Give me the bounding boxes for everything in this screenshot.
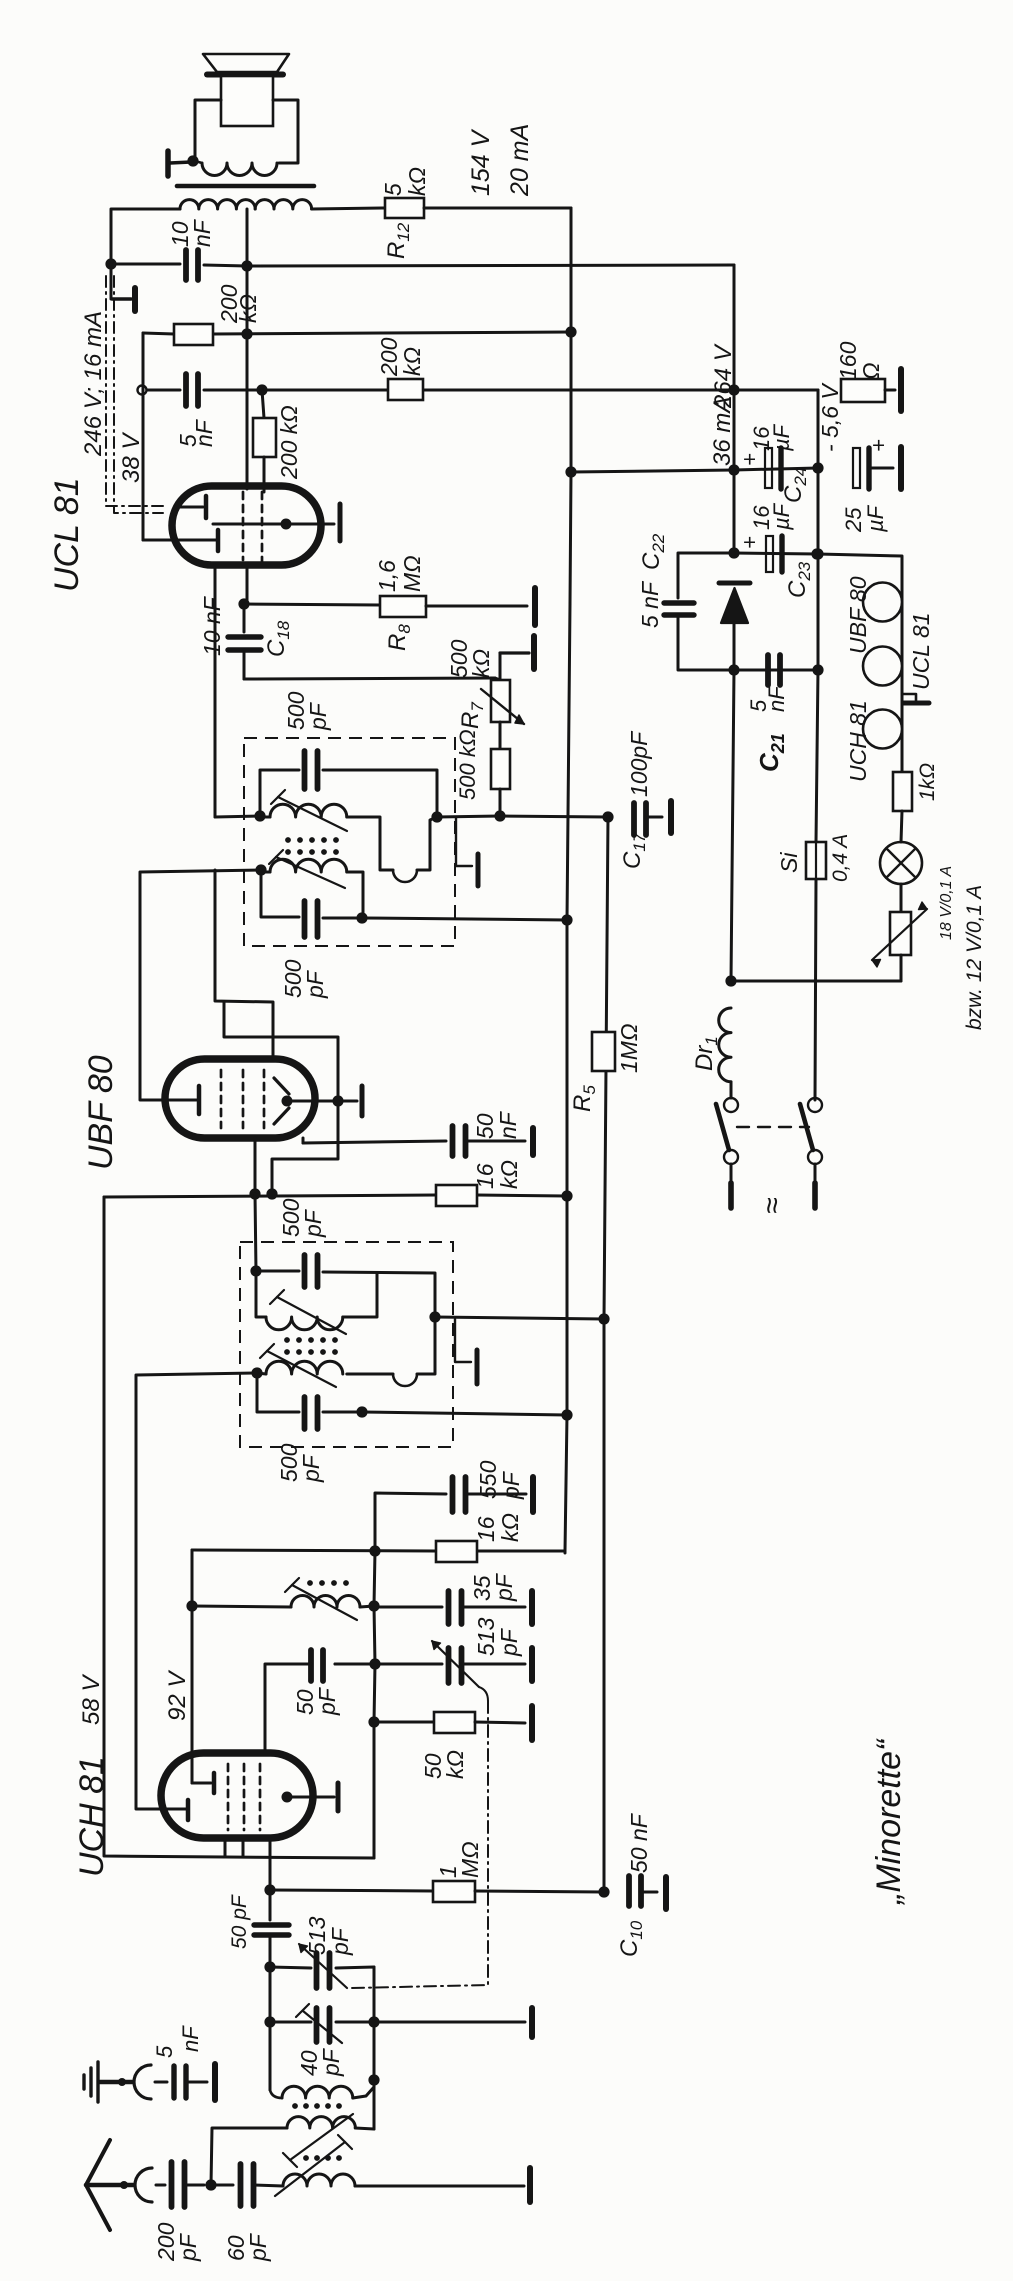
node IF2 P — [254, 810, 265, 821]
node T2 — [264, 2016, 275, 2027]
node IF2 B — [356, 912, 367, 923]
node C23b — [812, 548, 823, 559]
heater UBF80 — [863, 583, 902, 622]
wire to Dr1 node — [731, 980, 901, 983]
UCH81 heater pins — [224, 1840, 227, 1857]
svg-text:UBF 80: UBF 80 — [845, 576, 871, 654]
node 513pF line — [369, 1658, 380, 1669]
wire C18 to volume pot — [244, 678, 495, 679]
node osc coil left — [186, 1600, 197, 1611]
IF1 secondary coil — [428, 1317, 435, 1374]
tank coil — [270, 2090, 282, 2098]
node C21a — [728, 664, 739, 675]
node V3b — [728, 464, 739, 475]
resistor 500k fixed — [499, 722, 502, 749]
UCH81 anode dot — [282, 1792, 293, 1803]
node C1 — [256, 384, 267, 395]
antenna tuning coil L1 — [283, 2174, 355, 2186]
wire IF1 secondary to UCH81 triode grid — [136, 1373, 257, 1809]
svg-text:UCH 81: UCH 81 — [73, 1756, 111, 1877]
ground speaker frame — [165, 151, 171, 176]
UCL81 anode — [213, 523, 286, 526]
IF1 primary adjuster — [277, 1297, 346, 1334]
wire UCL81 triode anode px215 — [214, 565, 217, 817]
svg-text:Si: Si — [776, 852, 802, 873]
wire line B 200k — [143, 333, 174, 334]
wire anode rail px375 — [374, 1551, 375, 1606]
resistor 200k vertical screen feed — [262, 390, 264, 418]
svg-text:nF: nF — [764, 685, 789, 712]
capacitor 513pF tuning — [270, 1967, 311, 1968]
wire IF2 bottom cap line — [261, 870, 299, 917]
wire antenna lead — [156, 2184, 165, 2187]
capacitor 500pF IF1 bottom — [302, 1397, 308, 1429]
svg-text:154 V: 154 V — [467, 128, 495, 196]
resistor 200k decoupling — [388, 379, 423, 400]
resistor 1k — [893, 772, 912, 811]
pot R7 500k — [495, 678, 500, 680]
wire IF1 out to V2 — [435, 1317, 604, 1319]
wire IF1 bottom to V1 — [362, 1412, 567, 1415]
IF transformer 2 dashed box — [244, 738, 455, 946]
svg-text:58 V: 58 V — [78, 1674, 105, 1725]
capacitor 5nF — [183, 374, 189, 406]
ground tap heater chain — [902, 694, 916, 701]
svg-text:pF: pF — [496, 1627, 522, 1657]
capacitor C24 16uF electrolytic — [765, 448, 772, 488]
node 50k line — [368, 1716, 379, 1727]
node N56 — [812, 462, 823, 473]
svg-text:+: + — [866, 439, 891, 452]
tube UBF80 — [165, 1059, 315, 1138]
node E1 — [249, 1188, 260, 1199]
UCL81 grid electrode 2 — [143, 539, 215, 542]
node on V1 — [561, 914, 572, 925]
svg-text:5: 5 — [380, 183, 406, 196]
svg-text:µF: µF — [863, 504, 888, 533]
svg-text:nF: nF — [191, 418, 217, 447]
svg-text:pF: pF — [498, 1470, 524, 1500]
node V1b — [565, 466, 576, 477]
wire B- rail px818 — [817, 390, 820, 468]
capacitor 50pF osc grid — [335, 1663, 375, 1666]
antenna coupling coil — [211, 2128, 287, 2185]
capacitor C18 10nF — [243, 604, 246, 632]
wire B+ through tube px247 — [246, 266, 249, 489]
capacitor 500pF IF2 top — [302, 751, 308, 789]
gang link dash-dot — [479, 1687, 488, 1701]
IF transformer 1 dashed box — [240, 1242, 453, 1447]
NTC resistor variable — [900, 884, 903, 912]
switch pole 1 — [730, 1082, 733, 1098]
capacitor 513pF osc variable — [335, 1663, 442, 1666]
node C23a — [728, 547, 739, 558]
svg-text:0,4 A: 0,4 A — [829, 834, 852, 882]
node T3 — [368, 2016, 379, 2027]
svg-text:- 5,6 V: - 5,6 V — [817, 382, 843, 452]
osc coil core dots — [307, 1580, 313, 1586]
output transformer Tr — [195, 100, 221, 158]
capacitor C22 5nF across diode — [678, 553, 734, 598]
capacitor 500pF IF1 top — [302, 1255, 308, 1287]
svg-text:pF: pF — [298, 1453, 324, 1483]
svg-text:1,6: 1,6 — [374, 560, 400, 592]
coupling core dots — [292, 2103, 298, 2109]
UCL81 grid electrode 1 — [176, 506, 203, 509]
node V2 bottom — [598, 1886, 609, 1897]
wire L1 to ground — [355, 2185, 524, 2188]
oscillator feedback coil — [192, 1606, 291, 1607]
capacitor 25uF electrolytic — [853, 448, 860, 488]
UBF80 grids dashed — [220, 1070, 223, 1128]
IF1 secondary adjuster — [267, 1351, 336, 1387]
wire anode node elbow — [272, 1101, 338, 1194]
node UBF80 out — [332, 1095, 343, 1106]
capacitor 50nF — [302, 1138, 305, 1143]
svg-text:kΩ: kΩ — [399, 347, 425, 376]
node Dr1 — [725, 975, 736, 986]
node G1 — [264, 1884, 275, 1895]
node IF1 right — [429, 1311, 440, 1322]
node anode — [369, 1545, 380, 1556]
svg-text:µF: µF — [769, 502, 794, 531]
heater UCH81 — [863, 710, 902, 749]
svg-text:UBF 80: UBF 80 — [82, 1055, 120, 1170]
svg-text:MΩ: MΩ — [457, 1841, 483, 1878]
wire C23 line — [734, 553, 818, 554]
svg-text:UCH 81: UCH 81 — [845, 700, 871, 782]
svg-text:50 nF: 50 nF — [626, 1812, 652, 1873]
node IF2 right — [431, 811, 442, 822]
transformer core — [177, 184, 314, 189]
wire 40pF line to ground — [374, 2021, 525, 2024]
node IF1 B — [356, 1406, 367, 1417]
UCL81 grids dashed — [242, 492, 245, 560]
resistor 1M grid leak — [270, 1890, 433, 1891]
svg-text:kΩ: kΩ — [497, 1513, 523, 1542]
resistor R5 1M — [592, 1032, 615, 1071]
UCH81 grid electrode 1 — [191, 1753, 194, 1783]
heater chain node — [811, 548, 822, 559]
capacitor 550pF — [375, 1493, 446, 1551]
node V1a — [565, 326, 576, 337]
svg-text:pF: pF — [175, 2232, 201, 2262]
svg-text:pF: pF — [245, 2232, 271, 2262]
resistor R8 1.6M — [380, 596, 426, 617]
wire IF2 to R7 chain and C17 — [437, 816, 500, 817]
resistor 16k — [436, 1185, 477, 1206]
svg-text:kΩ: kΩ — [404, 167, 430, 196]
svg-text:µF: µF — [769, 423, 794, 452]
svg-text:nF: nF — [495, 1110, 521, 1139]
wire branch to anode node — [224, 1002, 338, 1101]
wire V2 rail — [604, 817, 608, 1892]
switch pole 2 — [808, 1098, 822, 1112]
UBF80 diode electrode — [170, 1099, 196, 1102]
node IF1 A — [250, 1265, 261, 1276]
capacitor C17 100pF — [631, 803, 637, 835]
heater UCL81 — [863, 647, 902, 686]
switch link dashed — [737, 1126, 809, 1128]
IF1 primary coil — [256, 1271, 266, 1317]
wire V3 rectifier rail — [733, 265, 736, 390]
svg-text:kΩ: kΩ — [496, 1160, 522, 1189]
wire py1195 AVC line — [104, 1195, 436, 1197]
wire tank left rail — [269, 1967, 272, 2022]
coupling coil adjuster — [290, 2114, 353, 2160]
IF2 internal ground — [456, 817, 472, 866]
513pF tuning arrow — [299, 1944, 347, 1988]
svg-text:246 V; 16 mA: 246 V; 16 mA — [80, 311, 107, 457]
svg-text:16: 16 — [472, 1163, 498, 1189]
node on V1 — [561, 1190, 572, 1201]
node C21b — [812, 664, 823, 675]
wire V1 rail 154V — [570, 208, 573, 332]
svg-text:18 V/0,1 A: 18 V/0,1 A — [938, 866, 955, 940]
svg-text:Ω: Ω — [858, 363, 884, 381]
capacitor C21 5nF — [734, 669, 818, 672]
tube UCL81 — [172, 486, 321, 565]
svg-text:1MΩ: 1MΩ — [616, 1024, 642, 1073]
svg-text:100pF: 100pF — [626, 730, 652, 797]
513pF osc arrow — [432, 1641, 479, 1687]
L1 adjuster — [275, 2142, 345, 2196]
resistor 160 ohm — [841, 379, 885, 402]
capacitor 5nF earth — [155, 2081, 167, 2084]
coupling core dots row 2 — [303, 2155, 309, 2161]
svg-text:pF: pF — [314, 1686, 340, 1716]
svg-text:≈: ≈ — [756, 1198, 789, 1214]
svg-text:10 nF: 10 nF — [199, 595, 225, 656]
IF2 secondary coil — [260, 871, 270, 874]
node A1 — [105, 258, 116, 269]
resistor 50k — [374, 1721, 434, 1724]
node T1 — [264, 1961, 275, 1972]
antenna symbol — [86, 2140, 110, 2185]
IF1 core dots — [284, 1337, 290, 1343]
dash-dot bracket 246V — [106, 276, 163, 506]
svg-text:+: + — [737, 453, 762, 466]
capacitor 10nF — [183, 250, 189, 280]
wire IF1 bottom cap line — [257, 1373, 299, 1412]
dial lamp 18V/0,1A — [901, 811, 902, 842]
svg-text:kΩ: kΩ — [468, 649, 494, 678]
ground G1 — [110, 264, 113, 299]
UBF80 anode dot — [282, 1096, 293, 1107]
svg-text:5 nF: 5 nF — [637, 580, 663, 628]
svg-text:nF: nF — [189, 218, 215, 247]
svg-text:pF: pF — [318, 2047, 344, 2077]
wire osc anode rail px192 — [191, 1550, 194, 1753]
IF2 core dots — [285, 837, 291, 843]
svg-text:92 V: 92 V — [164, 1670, 191, 1721]
40pF adjuster — [303, 2011, 342, 2043]
wire secondary right to R12 — [312, 208, 385, 209]
wire B+ branch py470 — [571, 470, 734, 472]
node IF2 S — [255, 864, 266, 875]
wire grid line to UCL81 — [143, 333, 216, 540]
wire osc grid line — [269, 1838, 272, 1890]
capacitor 200pF — [169, 2162, 175, 2207]
svg-text:500 kΩ: 500 kΩ — [455, 729, 480, 800]
UCH81 grids dashed — [227, 1764, 230, 1830]
capacitor 500pF IF2 bottom — [302, 901, 308, 937]
fuse Si 0,4A — [806, 842, 826, 879]
svg-text:50 pF: 50 pF — [228, 1894, 251, 1949]
node C2 — [728, 384, 739, 395]
capacitor C23 16uF electrolytic — [766, 536, 773, 572]
svg-text:pF: pF — [327, 1926, 353, 1956]
IF2 primary coil — [260, 816, 270, 819]
UCL81 cathode terminator — [286, 523, 334, 526]
svg-text:pF: pF — [491, 1572, 517, 1602]
node E2 — [266, 1188, 277, 1199]
resistor R12 5k — [385, 198, 424, 218]
wire line C 5nF — [147, 389, 180, 392]
svg-text:16: 16 — [473, 1516, 499, 1542]
svg-text:38 V: 38 V — [118, 432, 145, 483]
svg-text:+: + — [737, 536, 762, 549]
capacitor 40pF trimmer — [270, 2021, 311, 2024]
resistor 200k grid — [174, 324, 213, 345]
ground after 160 — [885, 389, 895, 392]
svg-text:UCL 81: UCL 81 — [908, 612, 934, 690]
UCH81 anode lead + terminator — [287, 1796, 334, 1799]
UBF80 diode plates — [274, 1078, 289, 1094]
resistor 16k IF feed — [436, 1541, 477, 1562]
wire IF2 secondary to UBF80 diode — [140, 870, 261, 1100]
svg-text:20 mA: 20 mA — [506, 124, 534, 197]
node IF1 S — [251, 1367, 262, 1378]
svg-text:pF: pF — [305, 701, 331, 731]
wire 16k anode line py1551 — [192, 1550, 436, 1551]
svg-text:bzw. 12 V/0,1 A: bzw. 12 V/0,1 A — [963, 885, 986, 1030]
svg-text:5: 5 — [152, 2045, 177, 2058]
UCH81 grid electrode 2 — [160, 1808, 186, 1811]
IF1 internal ground — [455, 1319, 471, 1362]
svg-text:pF: pF — [302, 969, 328, 999]
node 35pF line — [368, 1600, 379, 1611]
wire IF2 top cap line — [260, 770, 299, 816]
svg-text:pF: pF — [300, 1208, 326, 1238]
capacitor 35pF — [374, 1606, 442, 1609]
capacitor C10 50nF — [626, 1876, 632, 1906]
wire secondary left to 10nF rail — [111, 209, 180, 264]
wire secondary center tap — [246, 209, 249, 266]
wire detector output to V1 — [363, 918, 567, 920]
IF2 secondary adjuster — [276, 857, 345, 888]
capacitor 60pF — [211, 2184, 233, 2187]
node transformer primary left — [187, 155, 198, 166]
osc coil adjuster — [292, 1585, 357, 1620]
diode rectifier — [719, 581, 750, 586]
wire IF1 top cap line — [256, 1270, 299, 1273]
tube UCH81 — [161, 1753, 313, 1838]
node A2 — [241, 260, 252, 271]
node T4 — [368, 2074, 379, 2085]
svg-text:1kΩ: 1kΩ — [916, 763, 939, 801]
wire UBF80 top feed — [215, 870, 273, 1059]
wire AVC long line px104 — [104, 1197, 225, 1857]
node B1 — [241, 328, 252, 339]
choke Dr1 — [719, 1008, 731, 1082]
UBF80 anode lead + terminator — [287, 1100, 357, 1103]
svg-text:nF: nF — [178, 2025, 203, 2052]
svg-text:kΩ: kΩ — [442, 1750, 468, 1779]
svg-text:200 kΩ: 200 kΩ — [276, 405, 302, 480]
svg-text:„Minorette“: „Minorette“ — [870, 1738, 908, 1906]
wire 10nF rail — [111, 263, 180, 266]
ground after R8 — [532, 588, 538, 625]
node ant — [205, 2179, 216, 2190]
node D1 — [238, 598, 249, 609]
capacitor 50pF osc coupling — [269, 1890, 272, 1920]
secondary winding — [180, 200, 255, 209]
svg-text:UCL 81: UCL 81 — [48, 477, 86, 592]
svg-text:MΩ: MΩ — [399, 555, 425, 592]
wire tank right rail — [373, 1967, 376, 2022]
node V2 top — [602, 811, 613, 822]
speaker LS — [203, 54, 289, 72]
earth input symbol — [96, 2062, 99, 2102]
IF2 primary adjuster — [278, 797, 347, 831]
junction ring — [138, 386, 147, 395]
wire UBF80 pin to IF1 — [254, 1138, 257, 1194]
